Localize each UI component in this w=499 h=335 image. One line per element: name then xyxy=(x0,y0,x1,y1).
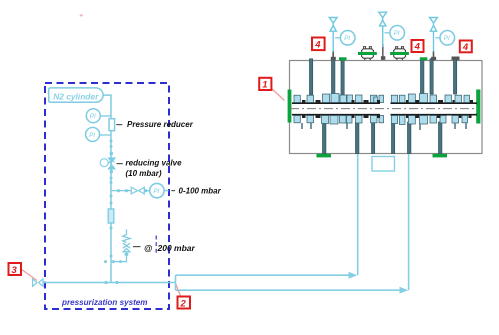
flange B on vessel top xyxy=(390,46,409,60)
red box 3 xyxy=(9,263,38,281)
nodes at relief branch junction xyxy=(104,260,122,263)
vessel outline xyxy=(290,61,483,154)
tick at 0-100 label xyxy=(171,190,175,192)
svg-text:2: 2 xyxy=(180,298,187,309)
gauge PI2 xyxy=(86,127,111,141)
relief valve RV2 xyxy=(379,12,387,47)
svg-text:PI: PI xyxy=(89,132,95,139)
svg-text:N2 cylinder: N2 cylinder xyxy=(53,92,99,102)
label @ 200 mbar xyxy=(144,236,196,255)
dark bracket on top edge xyxy=(452,57,460,61)
red box 1 xyxy=(259,78,284,101)
label Pressure reducer xyxy=(127,120,194,129)
svg-text:(10 mbar): (10 mbar) xyxy=(126,169,162,178)
pink speck artifact xyxy=(80,14,83,16)
svg-text:PI: PI xyxy=(394,30,400,37)
label 0-100 mbar xyxy=(179,187,222,196)
pressure reducer symbol xyxy=(109,119,115,131)
N2 cylinder xyxy=(49,88,103,102)
svg-text:reducing valve: reducing valve xyxy=(126,159,183,168)
RV1 stem into vessel xyxy=(331,52,336,61)
branch wire to PI3 xyxy=(111,189,150,192)
wire from cylinder to main line xyxy=(103,95,111,282)
relief valve RV3 xyxy=(430,18,438,53)
reducing valve xyxy=(100,158,115,169)
dark ticks on lower rail xyxy=(302,115,472,118)
svg-text:@: @ xyxy=(144,243,152,253)
arrowheads xyxy=(349,272,409,294)
green tab right on top edge xyxy=(420,57,428,60)
svg-text:Pressure reducer: Pressure reducer xyxy=(127,120,194,129)
upper columns xyxy=(310,59,457,97)
gauge PI5 xyxy=(385,26,405,41)
relief valve RV1 xyxy=(329,18,337,53)
dark ticks on upper rail xyxy=(302,100,473,103)
leader for Pressure reducer label xyxy=(116,124,122,126)
flange A on vessel top xyxy=(358,46,377,60)
svg-text:pressurization system: pressurization system xyxy=(61,298,147,307)
bottom pipe xyxy=(43,281,176,284)
green feet xyxy=(317,154,448,158)
svg-text:4: 4 xyxy=(414,42,421,53)
svg-text:4: 4 xyxy=(462,42,469,53)
red box 2 xyxy=(176,285,190,310)
red box 4a xyxy=(312,38,325,51)
nodes on main line xyxy=(110,140,114,258)
filter cartridge on main line xyxy=(108,209,114,223)
cyan blocks below rail left xyxy=(294,116,384,125)
gauge PI1 xyxy=(86,109,111,123)
pressurization system boundary (dashed box) xyxy=(45,83,169,309)
dash-dot centerline xyxy=(290,108,478,110)
cyan blocks above rail right xyxy=(391,94,469,103)
green tab left on top edge xyxy=(339,57,347,60)
cyan box under vessel xyxy=(372,157,395,172)
lower columns xyxy=(323,122,442,154)
cyan blocks above rail left xyxy=(294,94,384,103)
RV3 stem into vessel xyxy=(431,52,436,61)
svg-text:PI: PI xyxy=(153,188,159,195)
green bar right edge xyxy=(476,90,480,124)
svg-text:PI: PI xyxy=(90,113,96,120)
manual valve at left xyxy=(33,279,43,286)
valve on branch xyxy=(131,187,144,194)
label reducing valve (10 mbar) xyxy=(126,159,183,179)
short stubs below band xyxy=(302,123,466,130)
center band upper rail xyxy=(292,102,477,104)
leader for @200 label xyxy=(133,246,141,248)
svg-text:PI: PI xyxy=(444,35,450,42)
valve2 stem inside vessel xyxy=(381,44,385,60)
leader for reducing valve label xyxy=(117,163,123,165)
svg-text:1: 1 xyxy=(262,80,267,91)
node square on relief branch xyxy=(125,253,129,256)
svg-text:0-100 mbar: 0-100 mbar xyxy=(179,187,222,196)
supply pipes to vessel xyxy=(176,154,409,290)
green bar left edge xyxy=(288,90,292,123)
red box 4b xyxy=(412,40,424,53)
label pressurization system xyxy=(61,298,147,307)
relief branch @200 mbar xyxy=(111,230,130,262)
red box 4c xyxy=(460,41,472,54)
gauge PI3 xyxy=(150,183,169,197)
gauge PI6 xyxy=(435,31,454,46)
svg-text:200 mbar: 200 mbar xyxy=(157,243,196,253)
cyan blocks below rail right xyxy=(391,116,467,125)
svg-text:3: 3 xyxy=(12,265,18,276)
gauge PI4 xyxy=(335,31,355,46)
svg-text:4: 4 xyxy=(314,40,321,51)
svg-text:PI: PI xyxy=(344,35,350,42)
center band lower rail xyxy=(292,114,477,116)
